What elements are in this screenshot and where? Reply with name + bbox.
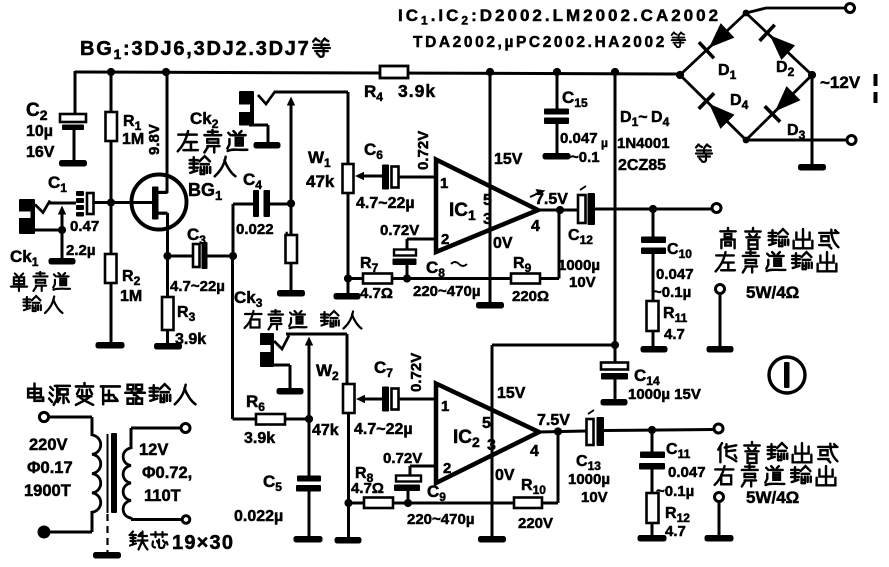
svg-text:4: 4 — [530, 443, 539, 460]
svg-text:0.047: 0.047 — [656, 266, 694, 283]
label R1 — [122, 113, 144, 148]
svg-text:~0.1µ: ~0.1µ — [656, 483, 694, 500]
pin 3 IC1 — [483, 211, 492, 228]
label R11 — [663, 305, 688, 343]
winding transformer primary — [92, 435, 101, 512]
label 12V dashes — [874, 74, 878, 103]
svg-text:110T: 110T — [144, 487, 181, 505]
svg-text:4.7~22µ: 4.7~22µ — [170, 278, 225, 295]
label ~12V — [820, 73, 861, 92]
label 15V IC2 — [497, 385, 526, 402]
ground C14 — [601, 399, 628, 406]
wire R3 — [166, 256, 169, 344]
label C12 — [558, 227, 600, 291]
wire IC1 pin2 to C8 — [407, 239, 435, 250]
wire bridge right down — [811, 75, 814, 165]
label core size — [130, 532, 235, 555]
node gate-bias — [107, 198, 115, 206]
node C9-R8-R10 — [404, 499, 412, 507]
label IC types line2 — [413, 32, 685, 51]
wire R6 to node — [285, 418, 309, 421]
terminal bass out — [714, 424, 723, 433]
wire Ck3 sleeve — [273, 365, 290, 388]
op-amp IC2 — [436, 384, 539, 484]
pin 2 IC1 — [441, 231, 449, 248]
node rail-IC1-15V — [486, 68, 494, 76]
label BG1 types — [80, 38, 330, 62]
ground R11 — [641, 346, 668, 353]
capacitor C15 — [544, 109, 569, 125]
svg-text:2: 2 — [443, 460, 451, 477]
label deng after 2CZ85 — [696, 145, 712, 162]
wire C6 to pin1 — [399, 176, 436, 179]
capacitor C3 — [193, 242, 208, 269]
label C7 value — [354, 421, 413, 438]
ground R5 — [277, 290, 305, 297]
capacitor C6 — [382, 165, 399, 190]
ground C5 — [294, 536, 323, 543]
label 15V IC1 — [494, 151, 523, 168]
wire Ck2 tip — [274, 91, 348, 94]
label R8 — [351, 465, 384, 497]
capacitor C5 — [296, 476, 321, 492]
wire core to ground (dashed) — [106, 514, 108, 553]
terminal AC bottom — [847, 136, 856, 145]
node Ck1 sleeve — [58, 226, 66, 234]
svg-text:7.5V: 7.5V — [537, 412, 570, 429]
label C6 value — [356, 195, 415, 212]
label R12 — [665, 505, 690, 540]
label 0.72V pin1 IC2 — [408, 353, 425, 392]
label mono-input — [11, 272, 70, 313]
wire C5 down — [308, 491, 311, 537]
svg-text:220~470µ: 220~470µ — [407, 511, 474, 528]
wire C3node up to C4 — [233, 204, 253, 256]
wire bass return — [718, 501, 721, 536]
svg-text:Φ0.17: Φ0.17 — [27, 459, 73, 477]
node bridge top — [743, 10, 750, 17]
label C14 — [628, 366, 701, 403]
svg-text:1N4001: 1N4001 — [617, 135, 670, 152]
svg-text:TDA2002,µPC2002.HA2002: TDA2002,µPC2002.HA2002 — [413, 34, 667, 51]
wire nodeB down — [290, 204, 293, 291]
resistor R12 — [647, 493, 659, 523]
terminal bass return — [715, 493, 724, 502]
node R6-C5-W2 — [305, 415, 313, 423]
label BG1 — [188, 180, 222, 203]
node C14 junction — [611, 341, 619, 349]
capacitor C11 — [639, 452, 665, 470]
pin 4 IC2 — [530, 443, 539, 460]
wire primary top — [49, 417, 92, 436]
node IC1 out — [556, 206, 564, 214]
op-amp IC1 — [436, 160, 538, 253]
svg-text:0.47: 0.47 — [70, 218, 99, 235]
svg-text:0.72V: 0.72V — [383, 450, 422, 467]
label 9.8V — [146, 124, 163, 155]
wire node to C5 — [308, 419, 311, 477]
svg-text:4.7: 4.7 — [664, 326, 685, 343]
transistor BG1 electrodes — [152, 187, 168, 220]
node W1 bottom — [344, 274, 352, 282]
ground bass return — [705, 535, 734, 542]
svg-text:4.7~22µ: 4.7~22µ — [354, 421, 413, 438]
node bridge right — [808, 71, 816, 79]
resistor R8 — [349, 498, 394, 509]
svg-text:0.72V: 0.72V — [408, 353, 425, 392]
wire R1-R2 divider — [110, 72, 113, 343]
capacitor C9 — [394, 476, 421, 492]
wire C3node down — [233, 256, 257, 419]
core transformer — [108, 433, 118, 513]
svg-text:2: 2 — [441, 231, 449, 248]
capacitor C7 — [382, 387, 399, 412]
pin 3 IC2 — [487, 437, 496, 454]
svg-text:0.022µ: 0.022µ — [234, 508, 283, 525]
capacitor C2 — [60, 114, 86, 130]
svg-text:0.047: 0.047 — [668, 464, 706, 481]
label C10 value — [653, 266, 694, 301]
jack Ck3 — [260, 333, 289, 367]
label C9 — [427, 482, 446, 504]
svg-text:4.7Ω: 4.7Ω — [360, 285, 393, 302]
wire Ck3wire to W2 top — [346, 334, 349, 386]
label Ck1 — [10, 247, 39, 269]
svg-text:3.9k: 3.9k — [244, 430, 275, 447]
svg-text:0.022: 0.022 — [236, 221, 274, 238]
wire IC1 out — [538, 209, 578, 212]
label IC1 — [449, 200, 476, 223]
label D1-D4 types — [617, 109, 670, 174]
label R9 — [512, 255, 549, 305]
terminal transformer primary bottom — [39, 527, 50, 538]
resistor R4 — [380, 66, 408, 78]
svg-text:220~470µ: 220~470µ — [413, 283, 480, 300]
label D2 — [776, 59, 795, 79]
wire bridge frame — [680, 13, 812, 140]
wiper W2 — [356, 395, 382, 403]
svg-text:1000µ: 1000µ — [558, 257, 600, 274]
label R3 — [175, 304, 206, 348]
svg-text:~0.1: ~0.1 — [570, 149, 600, 166]
label transformer caption — [28, 383, 195, 405]
label C13 — [568, 453, 610, 506]
svg-text:1M: 1M — [122, 131, 144, 148]
label C5 — [263, 472, 282, 494]
label C9 value — [407, 511, 474, 528]
capacitor C10 — [641, 237, 666, 255]
pin 1 IC1 — [440, 175, 448, 192]
svg-text:4: 4 — [531, 218, 540, 235]
label Ck2 — [190, 109, 219, 131]
wire IC2 out — [539, 431, 586, 432]
label treble output — [716, 228, 839, 302]
label W2 — [312, 361, 339, 439]
wire nodeB arrow up — [287, 97, 295, 205]
node W2 bottom — [344, 499, 352, 507]
resistor R7 — [348, 274, 392, 284]
wire top supply rail — [75, 72, 680, 74]
wire W2 bottom — [347, 413, 350, 538]
wire feedback IC2 — [393, 502, 514, 505]
wire C10 — [652, 209, 655, 347]
svg-text:15V: 15V — [497, 385, 526, 402]
svg-text:4.7~22µ: 4.7~22µ — [356, 195, 415, 212]
wire bridge bottom to terminal — [746, 139, 847, 142]
ground Ck2 — [254, 142, 281, 149]
label R2 — [120, 268, 142, 305]
wire W1 bottom — [347, 193, 350, 294]
wire secondary top — [131, 428, 181, 449]
wire C7 to pin1 — [399, 398, 437, 401]
label C7 — [374, 358, 393, 380]
node bass out — [648, 426, 656, 434]
resistor R5 (unlabeled) — [286, 235, 298, 263]
node IC2 out — [554, 427, 562, 435]
svg-text:4.7: 4.7 — [665, 523, 686, 540]
svg-text:12V: 12V — [139, 441, 168, 459]
svg-text:2CZ85: 2CZ85 — [618, 157, 666, 174]
diode D2 — [760, 25, 796, 60]
ground W2 — [335, 537, 362, 544]
ground transformer core — [93, 552, 121, 559]
resistor R6 — [256, 414, 285, 425]
ground R3 — [154, 343, 182, 350]
pin 5 IC1 — [483, 192, 492, 209]
label D4 — [730, 92, 749, 112]
terminal treble return — [716, 285, 725, 294]
wire IC2 pin2 to C9 — [410, 466, 436, 477]
node rail-C14-line — [611, 68, 619, 76]
label Ck3 — [234, 288, 263, 310]
jack Ck1 — [19, 199, 50, 234]
terminal treble out — [712, 204, 721, 213]
svg-text:10V: 10V — [581, 489, 608, 506]
svg-text:~12V: ~12V — [820, 73, 861, 92]
label secondary — [139, 441, 192, 505]
label C10 — [667, 241, 692, 261]
node bridge bottom — [743, 137, 750, 144]
svg-text:15V: 15V — [494, 151, 523, 168]
svg-text:220V: 220V — [29, 436, 68, 454]
svg-text:47k: 47k — [312, 422, 339, 439]
label C3 — [187, 225, 206, 247]
svg-text:5W/4Ω: 5W/4Ω — [746, 283, 799, 302]
svg-text:47k: 47k — [306, 172, 335, 191]
ground IC1 pin3 — [476, 302, 504, 309]
svg-text:1: 1 — [441, 398, 449, 415]
ground C2 — [59, 160, 87, 167]
wire C15 — [556, 72, 559, 155]
svg-text:1: 1 — [440, 175, 448, 192]
transistor BG1 body — [132, 175, 187, 230]
wire Ck2 sleeve — [249, 125, 268, 142]
resistor R1 — [106, 112, 118, 141]
terminal transformer secondary bottom — [182, 516, 190, 524]
label C8 value — [413, 283, 480, 300]
svg-text:0.72V: 0.72V — [380, 222, 419, 239]
label C8 — [426, 258, 467, 280]
svg-text:1000µ: 1000µ — [568, 471, 610, 488]
label left-ch-input — [178, 130, 248, 176]
wire secondary bottom — [131, 517, 182, 520]
node C8-R7-R9 — [403, 274, 411, 282]
ground Ck1 — [49, 258, 76, 265]
svg-text:2.2µ: 2.2µ — [66, 242, 96, 259]
wire C4 to nodeB — [270, 203, 291, 206]
pin 5 IC2 — [482, 415, 491, 432]
ground treble return — [707, 346, 734, 353]
label 0V IC1 — [493, 235, 513, 252]
wire C11 — [651, 430, 654, 536]
wire R10 to output — [542, 432, 558, 503]
wire node arrow up W2 — [305, 337, 313, 420]
label D1 — [718, 62, 737, 82]
svg-text:IC1.IC2:D2002.LM2002.CA2002: IC1.IC2:D2002.LM2002.CA2002 — [398, 6, 721, 28]
label 7.5V IC1 — [530, 189, 568, 208]
wire bridge top to terminal — [746, 8, 845, 13]
label C1 value — [66, 218, 99, 259]
svg-text:1900T: 1900T — [24, 482, 71, 500]
svg-text:3.9k: 3.9k — [398, 81, 436, 101]
svg-text:0V: 0V — [493, 235, 513, 252]
svg-text:10µ: 10µ — [26, 123, 53, 140]
wire feedback IC1 — [392, 277, 511, 280]
label C5 value — [234, 508, 283, 525]
capacitor C1 — [76, 191, 94, 217]
wire IC2 supply-ground — [491, 345, 494, 537]
wire to IC2 riser — [492, 344, 615, 347]
ground Ck3 — [277, 388, 304, 395]
terminal transformer primary top — [39, 412, 48, 421]
terminal transformer secondary top — [181, 424, 190, 433]
label 0.72V pin2 IC2 — [383, 450, 422, 467]
wire C3 left — [168, 255, 194, 258]
svg-text:µ: µ — [601, 136, 608, 150]
terminal AC top — [846, 4, 855, 13]
ground IC2 pin3 — [478, 536, 506, 543]
label R6 — [244, 392, 275, 447]
resistor R2 — [105, 254, 117, 283]
capacitor C14 — [601, 345, 628, 400]
node rail-R1 — [107, 68, 115, 76]
wire Ck1 tip to C1 — [49, 202, 76, 205]
node BG1 source — [163, 252, 171, 260]
node B — [287, 199, 295, 207]
svg-text:4.7Ω: 4.7Ω — [351, 480, 384, 497]
pin 1 IC2 — [441, 398, 449, 415]
svg-text:10V: 10V — [569, 274, 596, 291]
wire Ck3 tip — [286, 333, 347, 336]
label C11 — [666, 441, 691, 461]
svg-text:0V: 0V — [495, 467, 515, 484]
label 0.72V pin1 IC1 — [415, 131, 432, 170]
label C4 value — [236, 221, 292, 242]
label C6 — [364, 140, 383, 162]
resistor R3 — [162, 297, 174, 330]
label C15 — [562, 88, 588, 110]
wire C1 to gate — [94, 201, 154, 204]
svg-text:16V: 16V — [26, 144, 55, 161]
label 0V IC2 — [495, 467, 515, 484]
wire IC1 supply-ground — [489, 72, 492, 303]
label IC2 — [453, 427, 480, 450]
label C15 value — [560, 130, 608, 166]
wire treble return — [719, 293, 722, 347]
node bridge left — [676, 71, 684, 79]
capacitor C13 — [587, 410, 605, 446]
ground C15 — [543, 153, 571, 160]
wire Ck1 sleeve — [35, 206, 66, 260]
node C3 out — [229, 252, 237, 260]
wire C9 down — [407, 491, 410, 503]
capacitor C4 — [253, 190, 270, 217]
node rail-BG1-drain — [162, 68, 170, 76]
wire C8 down — [406, 265, 409, 279]
label 0.72V pin2 IC1 — [380, 222, 419, 239]
label primary — [24, 436, 73, 500]
label IC types line1 — [398, 6, 721, 28]
label R4 — [364, 81, 436, 104]
svg-text:0.047: 0.047 — [560, 130, 598, 147]
svg-text:0.72V: 0.72V — [415, 131, 432, 170]
label C2 — [26, 100, 55, 161]
node rail-C15 — [553, 68, 561, 76]
svg-text:1000µ 15V: 1000µ 15V — [628, 386, 701, 403]
svg-text:5: 5 — [482, 415, 491, 432]
capacitor C12 — [578, 186, 595, 225]
wire BG1 drain — [166, 72, 169, 193]
wire C3 right — [208, 255, 234, 258]
potentiometer W1 — [343, 164, 354, 193]
resistor R9 — [511, 274, 540, 284]
wire 15V drop line — [614, 72, 617, 345]
wire BG1 source — [166, 213, 169, 256]
ground R2 — [96, 342, 125, 349]
label R7 — [360, 255, 393, 302]
label D3 — [787, 122, 806, 142]
svg-text:~0.1µ: ~0.1µ — [653, 284, 691, 301]
pin 4 IC1 — [531, 218, 540, 235]
wire C2 branch — [74, 71, 75, 160]
potentiometer W2 — [343, 384, 355, 413]
pin 2 IC2 — [443, 460, 451, 477]
node treble out — [649, 205, 657, 213]
label bass output — [715, 442, 838, 507]
winding transformer secondary — [123, 448, 131, 518]
diode D3 — [765, 86, 801, 122]
svg-text:19×30: 19×30 — [172, 532, 234, 554]
label C1 — [48, 173, 67, 195]
capacitor C8 — [393, 250, 417, 266]
wire primary bottom — [49, 511, 92, 532]
label C3 value — [170, 278, 225, 295]
symbol circled-1 — [769, 357, 805, 393]
ground R12 — [638, 535, 667, 542]
diode D1 — [699, 23, 735, 58]
svg-text:9.8V: 9.8V — [146, 124, 163, 155]
svg-text:1M: 1M — [120, 288, 142, 305]
label W1 — [306, 148, 335, 191]
resistor R11 — [647, 301, 659, 331]
wire C13 to bass term — [604, 430, 714, 431]
svg-text:220Ω: 220Ω — [512, 288, 549, 305]
diode D4 — [699, 93, 735, 129]
label C11 value — [656, 464, 706, 500]
wire Ck2wire to W1 top — [347, 92, 350, 166]
ground W1 — [334, 293, 361, 300]
wiper W1 — [355, 172, 382, 180]
